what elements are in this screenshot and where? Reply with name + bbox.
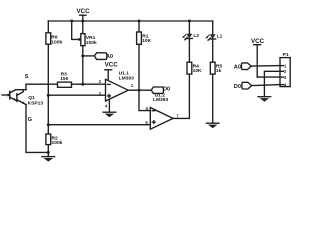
- resistor R2 100k: [46, 134, 51, 156]
- op-amp U1.2 LM393: [150, 108, 173, 130]
- transistor Q1 KSP13 (photo darlington): [2, 90, 26, 105]
- wire A0 to P1 pin1: [251, 65, 280, 68]
- net tag A0 (analog out): [94, 53, 106, 60]
- junction on rail at VR1 top: [81, 20, 84, 23]
- svg-text:100k: 100k: [51, 39, 62, 45]
- svg-text:100k: 100k: [52, 140, 63, 146]
- ground under U1.1: [103, 112, 116, 117]
- wire: collector bus to S: [16, 89, 26, 91]
- ground under R2: [42, 157, 55, 162]
- node: reference to U1.1 pin3: [47, 94, 50, 97]
- LED L2: [182, 21, 192, 62]
- svg-text:G: G: [28, 117, 32, 123]
- svg-text:L2: L2: [193, 33, 199, 39]
- ground under P1: [258, 97, 271, 102]
- junction on rail at L2: [188, 20, 191, 23]
- junction on rail at R1: [138, 20, 141, 23]
- connector P1: [280, 58, 290, 87]
- wire: reference to U1.2 pin5: [48, 124, 150, 126]
- node: ground junction with G wire: [47, 151, 50, 154]
- svg-text:L1: L1: [217, 34, 223, 40]
- wire: U1.2 output to R4: [173, 74, 189, 118]
- resistor R3 150: [58, 82, 72, 87]
- net tag D0 (digital out): [151, 87, 163, 93]
- svg-text:S: S: [25, 74, 29, 80]
- wire: divider column R6 to R2: [47, 44, 49, 134]
- svg-text:10K: 10K: [193, 68, 202, 74]
- resistor R4 10K: [187, 62, 192, 74]
- power VCC (U1.1 pin8): [105, 70, 112, 80]
- svg-text:P1: P1: [283, 52, 289, 58]
- svg-text:KSP13: KSP13: [28, 100, 44, 106]
- node: VR1 bottom joins pin2 net: [81, 83, 84, 86]
- svg-text:A0: A0: [106, 54, 113, 60]
- wire: U1.1 output: [128, 89, 151, 91]
- svg-text:150: 150: [60, 76, 68, 82]
- resistor R1 10K: [137, 21, 142, 90]
- wire: reference to U1.1 pin3: [48, 94, 105, 96]
- node: reference to U1.2 pin5: [47, 123, 50, 126]
- svg-text:VCC: VCC: [251, 38, 265, 45]
- svg-text:A0: A0: [234, 64, 241, 70]
- svg-text:100k: 100k: [86, 40, 97, 46]
- wire: top VCC rail: [48, 20, 212, 22]
- wire D0 to P1 pin4: [252, 85, 280, 86]
- junction on rail at VR1 wiper: [70, 20, 73, 23]
- svg-text:D0: D0: [234, 84, 241, 90]
- svg-text:10K: 10K: [142, 38, 151, 44]
- wire: output to U1.2 pin6: [139, 90, 150, 110]
- ground under R5: [206, 123, 219, 128]
- svg-text:VCC: VCC: [105, 61, 119, 68]
- svg-text:VCC: VCC: [77, 8, 91, 15]
- resistor R6 100k: [46, 21, 51, 44]
- svg-text:D0: D0: [163, 87, 170, 93]
- LED L1: [206, 21, 216, 62]
- wire to A0 tag: [83, 55, 95, 57]
- power VCC (connector): [254, 45, 280, 77]
- svg-text:Q1: Q1: [28, 95, 35, 101]
- svg-text:LM393: LM393: [119, 75, 135, 81]
- wire: P1 pin2 to ground: [264, 71, 280, 96]
- resistor R5 1k: [210, 62, 215, 123]
- U1.1 pin4 stub to ground: [108, 99, 110, 112]
- node: VR1 to A0 tap: [81, 54, 84, 57]
- svg-text:1k: 1k: [216, 68, 222, 74]
- node: output junction: [138, 89, 141, 92]
- op-amp U1.1 LM393: [106, 79, 129, 101]
- power VCC (top): [80, 15, 86, 21]
- trimmer VR1 100k: [72, 21, 85, 84]
- svg-text:LM393: LM393: [153, 97, 169, 103]
- wire R3 to U1.1 pin2: [72, 83, 106, 85]
